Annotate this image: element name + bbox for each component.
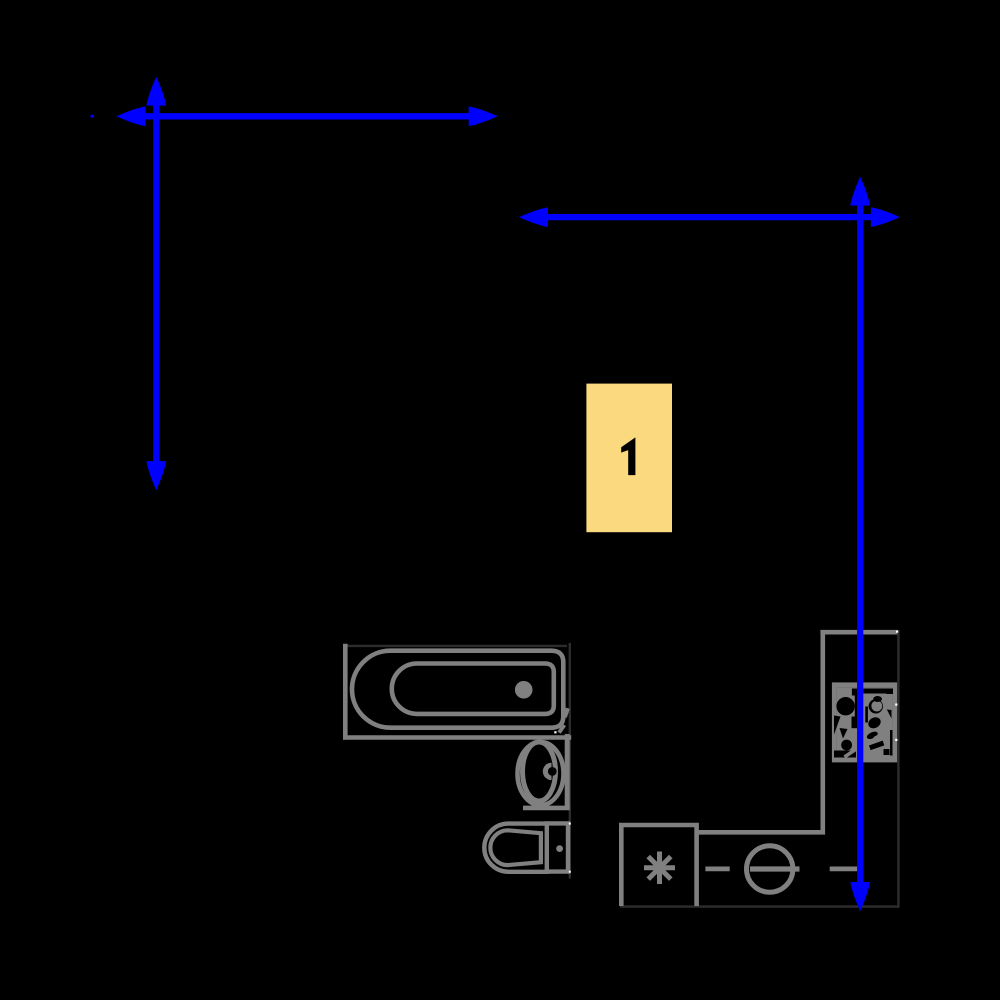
washbasin right bar — [565, 734, 570, 810]
fridge outline — [621, 825, 696, 906]
kitchen sink dash right — [830, 867, 860, 872]
dimension arrow B horizontal — [519, 207, 900, 227]
washbasin inner bowl — [523, 742, 556, 801]
kitchen sink ring — [747, 846, 793, 892]
fridge snowflake — [644, 852, 675, 885]
kitchen sink dash left — [705, 867, 729, 872]
washbasin tap — [543, 763, 552, 780]
toilet outer bowl — [484, 824, 549, 872]
kitchen counter left — [820, 630, 825, 835]
dimension arrow A vertical — [146, 77, 166, 491]
bathtub drain — [515, 681, 533, 699]
wall bottom of kitchen — [620, 905, 898, 907]
room 1 label — [586, 384, 672, 533]
room 1 digit — [621, 437, 635, 475]
toilet tank — [547, 823, 568, 871]
washbasin bottom bar — [523, 806, 570, 811]
gas hob burners — [834, 687, 893, 757]
wall right of bathroom — [569, 643, 571, 879]
dimension arrow A horizontal — [116, 106, 497, 126]
artifact specks — [554, 631, 898, 873]
bathtub outer shell — [352, 651, 563, 728]
wall right of kitchen — [897, 630, 899, 908]
dimension dot A — [91, 115, 94, 118]
dimension arrow B vertical — [850, 177, 870, 912]
wall top of bathtub — [345, 645, 567, 647]
dash mark 2 at tub corner — [565, 708, 568, 717]
bathtub inner basin — [392, 664, 554, 714]
bathtub rim bottom — [343, 735, 571, 740]
toilet inner bowl — [490, 830, 541, 865]
dash mark 1 at tub corner — [559, 725, 564, 733]
kitchen counter top — [820, 630, 897, 635]
toilet button — [556, 845, 563, 852]
kitchen sink bar — [750, 866, 800, 871]
kitchen counter lower — [699, 830, 825, 835]
gas hob frame — [834, 685, 894, 760]
washbasin outer bowl — [518, 742, 564, 805]
bathtub rim left — [343, 644, 348, 740]
